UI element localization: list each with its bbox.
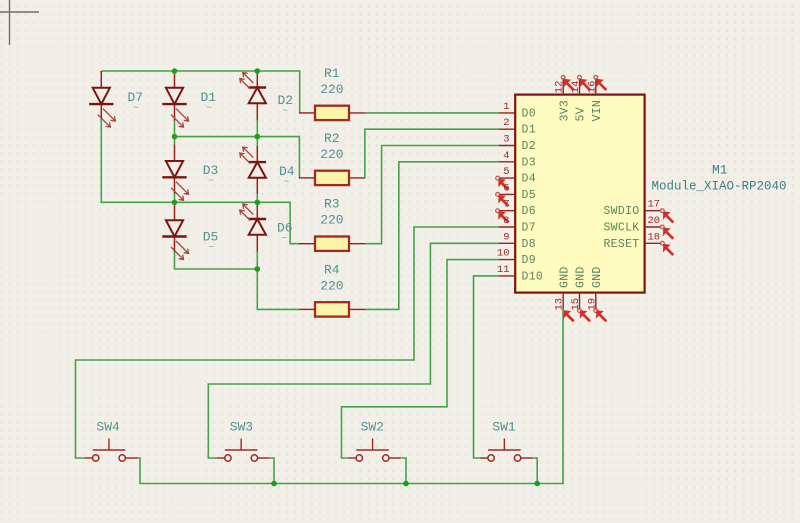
switch SW4 xyxy=(85,439,138,462)
svg-text:220: 220 xyxy=(320,213,343,228)
pin 9 (D8) xyxy=(499,231,536,251)
pin segments D7 column xyxy=(100,71,102,88)
wire row2 to R2 left xyxy=(257,137,299,178)
pin segments D1 column xyxy=(174,71,176,88)
pin 4 (D3) xyxy=(499,150,536,170)
pin 11 (D10) xyxy=(497,264,543,284)
pin 7 (D6) xyxy=(499,199,536,219)
pin segments D6 column xyxy=(256,203,258,219)
junction row2/D4 xyxy=(254,134,260,140)
wire D1 bottom stub xyxy=(174,121,176,137)
svg-text:D10: D10 xyxy=(522,270,544,283)
svg-text:SW1: SW1 xyxy=(492,420,516,435)
wire module pin 8 (D7) to SW4 xyxy=(76,227,499,458)
wire row3 to R3 left xyxy=(257,202,299,243)
pin segments D3 column xyxy=(174,145,176,161)
wire R1 right to module pin 1 (D0) xyxy=(365,112,499,114)
pin 17 (SWDIO) right xyxy=(603,199,674,224)
pin 3 (D2) xyxy=(499,134,536,154)
wire module pin 10 (D9) to SW2 xyxy=(342,260,499,458)
pin 6 (D5) xyxy=(499,182,536,202)
svg-text:Module_XIAO-RP2040: Module_XIAO-RP2040 xyxy=(652,180,787,194)
svg-text:D6: D6 xyxy=(522,205,536,218)
LED D7 xyxy=(89,88,115,127)
pin 18 (RESET) right xyxy=(603,231,674,256)
wire GND bus from SW4 to module pin 13 xyxy=(138,310,564,484)
svg-text:SWCLK: SWCLK xyxy=(603,222,639,235)
svg-text:GND: GND xyxy=(575,266,588,288)
LED D4 xyxy=(240,147,266,178)
svg-text:R2: R2 xyxy=(324,131,340,146)
wire D3 bottom stub xyxy=(174,194,176,202)
wire D4 top stub xyxy=(256,137,258,146)
resistor R3 xyxy=(299,237,365,251)
pin 5 (D4) xyxy=(499,166,536,186)
svg-text:~: ~ xyxy=(282,234,288,245)
pin 20 (SWCLK) right xyxy=(603,215,674,240)
svg-text:5: 5 xyxy=(503,166,509,178)
switch SW3 xyxy=(217,439,270,462)
junction row1/D2 xyxy=(254,68,260,74)
junction row4/D6-R4 xyxy=(254,266,260,272)
wire SW1 to bus xyxy=(533,458,537,484)
wire row1 to R1 left xyxy=(257,71,299,113)
wire net row2 (D1/D2 bottoms - D3/D4 tops) xyxy=(175,136,258,138)
svg-text:SW2: SW2 xyxy=(361,420,384,435)
svg-text:3: 3 xyxy=(503,134,509,146)
pin 13 (GND) bottom xyxy=(554,266,575,322)
wire module pin 9 (D8) to SW3 xyxy=(208,243,499,458)
svg-text:D5: D5 xyxy=(522,189,536,202)
svg-text:6: 6 xyxy=(503,182,509,194)
LED D2 xyxy=(240,73,266,104)
svg-text:D3: D3 xyxy=(522,156,536,169)
pin 2 (D1) xyxy=(499,117,536,137)
wire D6 top stub xyxy=(256,202,258,203)
svg-text:D9: D9 xyxy=(522,254,536,267)
junction row3/D6 xyxy=(254,200,260,206)
wire row4 to R4 left xyxy=(257,269,299,309)
svg-text:D7: D7 xyxy=(522,222,536,235)
svg-text:D0: D0 xyxy=(522,107,536,120)
pin 12 (3V3) top xyxy=(554,76,575,122)
svg-text:220: 220 xyxy=(320,147,343,162)
LED D6 xyxy=(240,204,266,235)
LED D3 xyxy=(162,161,188,200)
svg-text:SWDIO: SWDIO xyxy=(603,205,639,218)
wire R2 right to module pin 2 (D1) xyxy=(365,129,499,178)
svg-text:~: ~ xyxy=(282,107,288,118)
svg-text:RESET: RESET xyxy=(603,238,639,251)
unconnected pin 5 marker xyxy=(496,176,510,191)
wire R3 right to module pin 3 (D2) xyxy=(365,146,499,244)
svg-text:D4: D4 xyxy=(522,173,536,186)
svg-text:GND: GND xyxy=(558,266,571,288)
svg-text:13: 13 xyxy=(554,298,566,311)
resistor R2 xyxy=(299,171,365,185)
svg-text:3V3: 3V3 xyxy=(558,100,571,122)
pin segments D2 column xyxy=(256,71,258,88)
junction bus/SW3 xyxy=(271,481,277,487)
pin 15 (GND) bottom xyxy=(570,266,591,322)
unconnected pin 7 marker xyxy=(496,209,510,224)
resistor R4 xyxy=(299,302,365,316)
junction row1/D1 xyxy=(172,68,178,74)
svg-text:R1: R1 xyxy=(324,66,340,81)
svg-text:R4: R4 xyxy=(324,262,340,277)
svg-text:D1: D1 xyxy=(522,124,536,137)
pin 14 (5V) top xyxy=(570,76,591,122)
wire net row3 (D7 bottom - D3/D5 - D4/D6) xyxy=(101,120,257,203)
svg-text:GND: GND xyxy=(591,266,604,288)
svg-text:1: 1 xyxy=(503,101,509,113)
wire D4 bottom stub xyxy=(256,194,258,202)
svg-text:4: 4 xyxy=(503,150,509,162)
module U/M1 body Module_XIAO-RP2040 xyxy=(515,95,644,293)
svg-text:7: 7 xyxy=(503,199,509,211)
svg-text:M1: M1 xyxy=(712,163,728,178)
wire SW2 to bus xyxy=(402,458,406,484)
svg-text:220: 220 xyxy=(320,82,343,97)
wire stub R2 right xyxy=(364,177,367,179)
svg-text:SW3: SW3 xyxy=(230,420,253,435)
svg-text:5V: 5V xyxy=(575,107,588,121)
svg-text:9: 9 xyxy=(503,231,509,243)
svg-text:VIN: VIN xyxy=(591,100,604,122)
LED D1 xyxy=(162,88,188,127)
wire D6 bottom stub xyxy=(256,252,258,270)
svg-text:~: ~ xyxy=(133,104,139,115)
svg-text:17: 17 xyxy=(648,199,661,211)
junction row2/D3 xyxy=(172,134,178,140)
wire net row1 (D7/D1/D2 tops) xyxy=(101,70,257,72)
junction bus/SW2 xyxy=(403,481,409,487)
wire SW3 to bus xyxy=(270,458,274,484)
wire D2 bottom stub xyxy=(256,120,258,136)
junction row3/D5 xyxy=(172,200,178,206)
wire net row4 (D5/D6 bottoms) xyxy=(175,252,258,269)
svg-text:~: ~ xyxy=(208,243,214,254)
sheet origin crosshair xyxy=(0,0,39,45)
svg-text:SW4: SW4 xyxy=(96,420,120,435)
pin 8 (D7) xyxy=(499,215,536,235)
wire R4 right to module pin 4 (D3) xyxy=(365,162,499,310)
pin 16 (VIN) top xyxy=(586,76,607,122)
svg-text:2: 2 xyxy=(503,117,509,129)
unconnected pin 6 marker xyxy=(496,193,510,208)
svg-text:18: 18 xyxy=(648,231,661,243)
svg-text:8: 8 xyxy=(503,215,509,227)
LED D5 xyxy=(162,220,188,259)
pin 10 (D9) xyxy=(497,248,536,268)
svg-text:~: ~ xyxy=(206,104,212,115)
svg-text:11: 11 xyxy=(497,264,510,276)
pin 19 (GND) bottom xyxy=(586,266,607,322)
svg-text:10: 10 xyxy=(497,248,510,260)
pin 1 (D0) xyxy=(499,101,536,121)
switch SW2 xyxy=(348,439,401,462)
svg-text:D2: D2 xyxy=(522,140,536,153)
switch SW1 xyxy=(480,439,533,462)
svg-text:~: ~ xyxy=(284,178,290,189)
pin segments D4 column xyxy=(256,146,258,162)
junction bus/SW1 xyxy=(534,481,540,487)
svg-text:~: ~ xyxy=(208,177,214,188)
wire D3 top stub xyxy=(174,137,176,145)
resistor R1 xyxy=(299,106,365,120)
svg-text:20: 20 xyxy=(648,215,661,227)
svg-text:220: 220 xyxy=(320,278,343,293)
pin segments D5 column xyxy=(174,202,176,220)
wire module pin 11 (D10) to SW1 xyxy=(474,276,499,458)
svg-text:R3: R3 xyxy=(324,197,340,212)
svg-text:D8: D8 xyxy=(522,238,536,251)
